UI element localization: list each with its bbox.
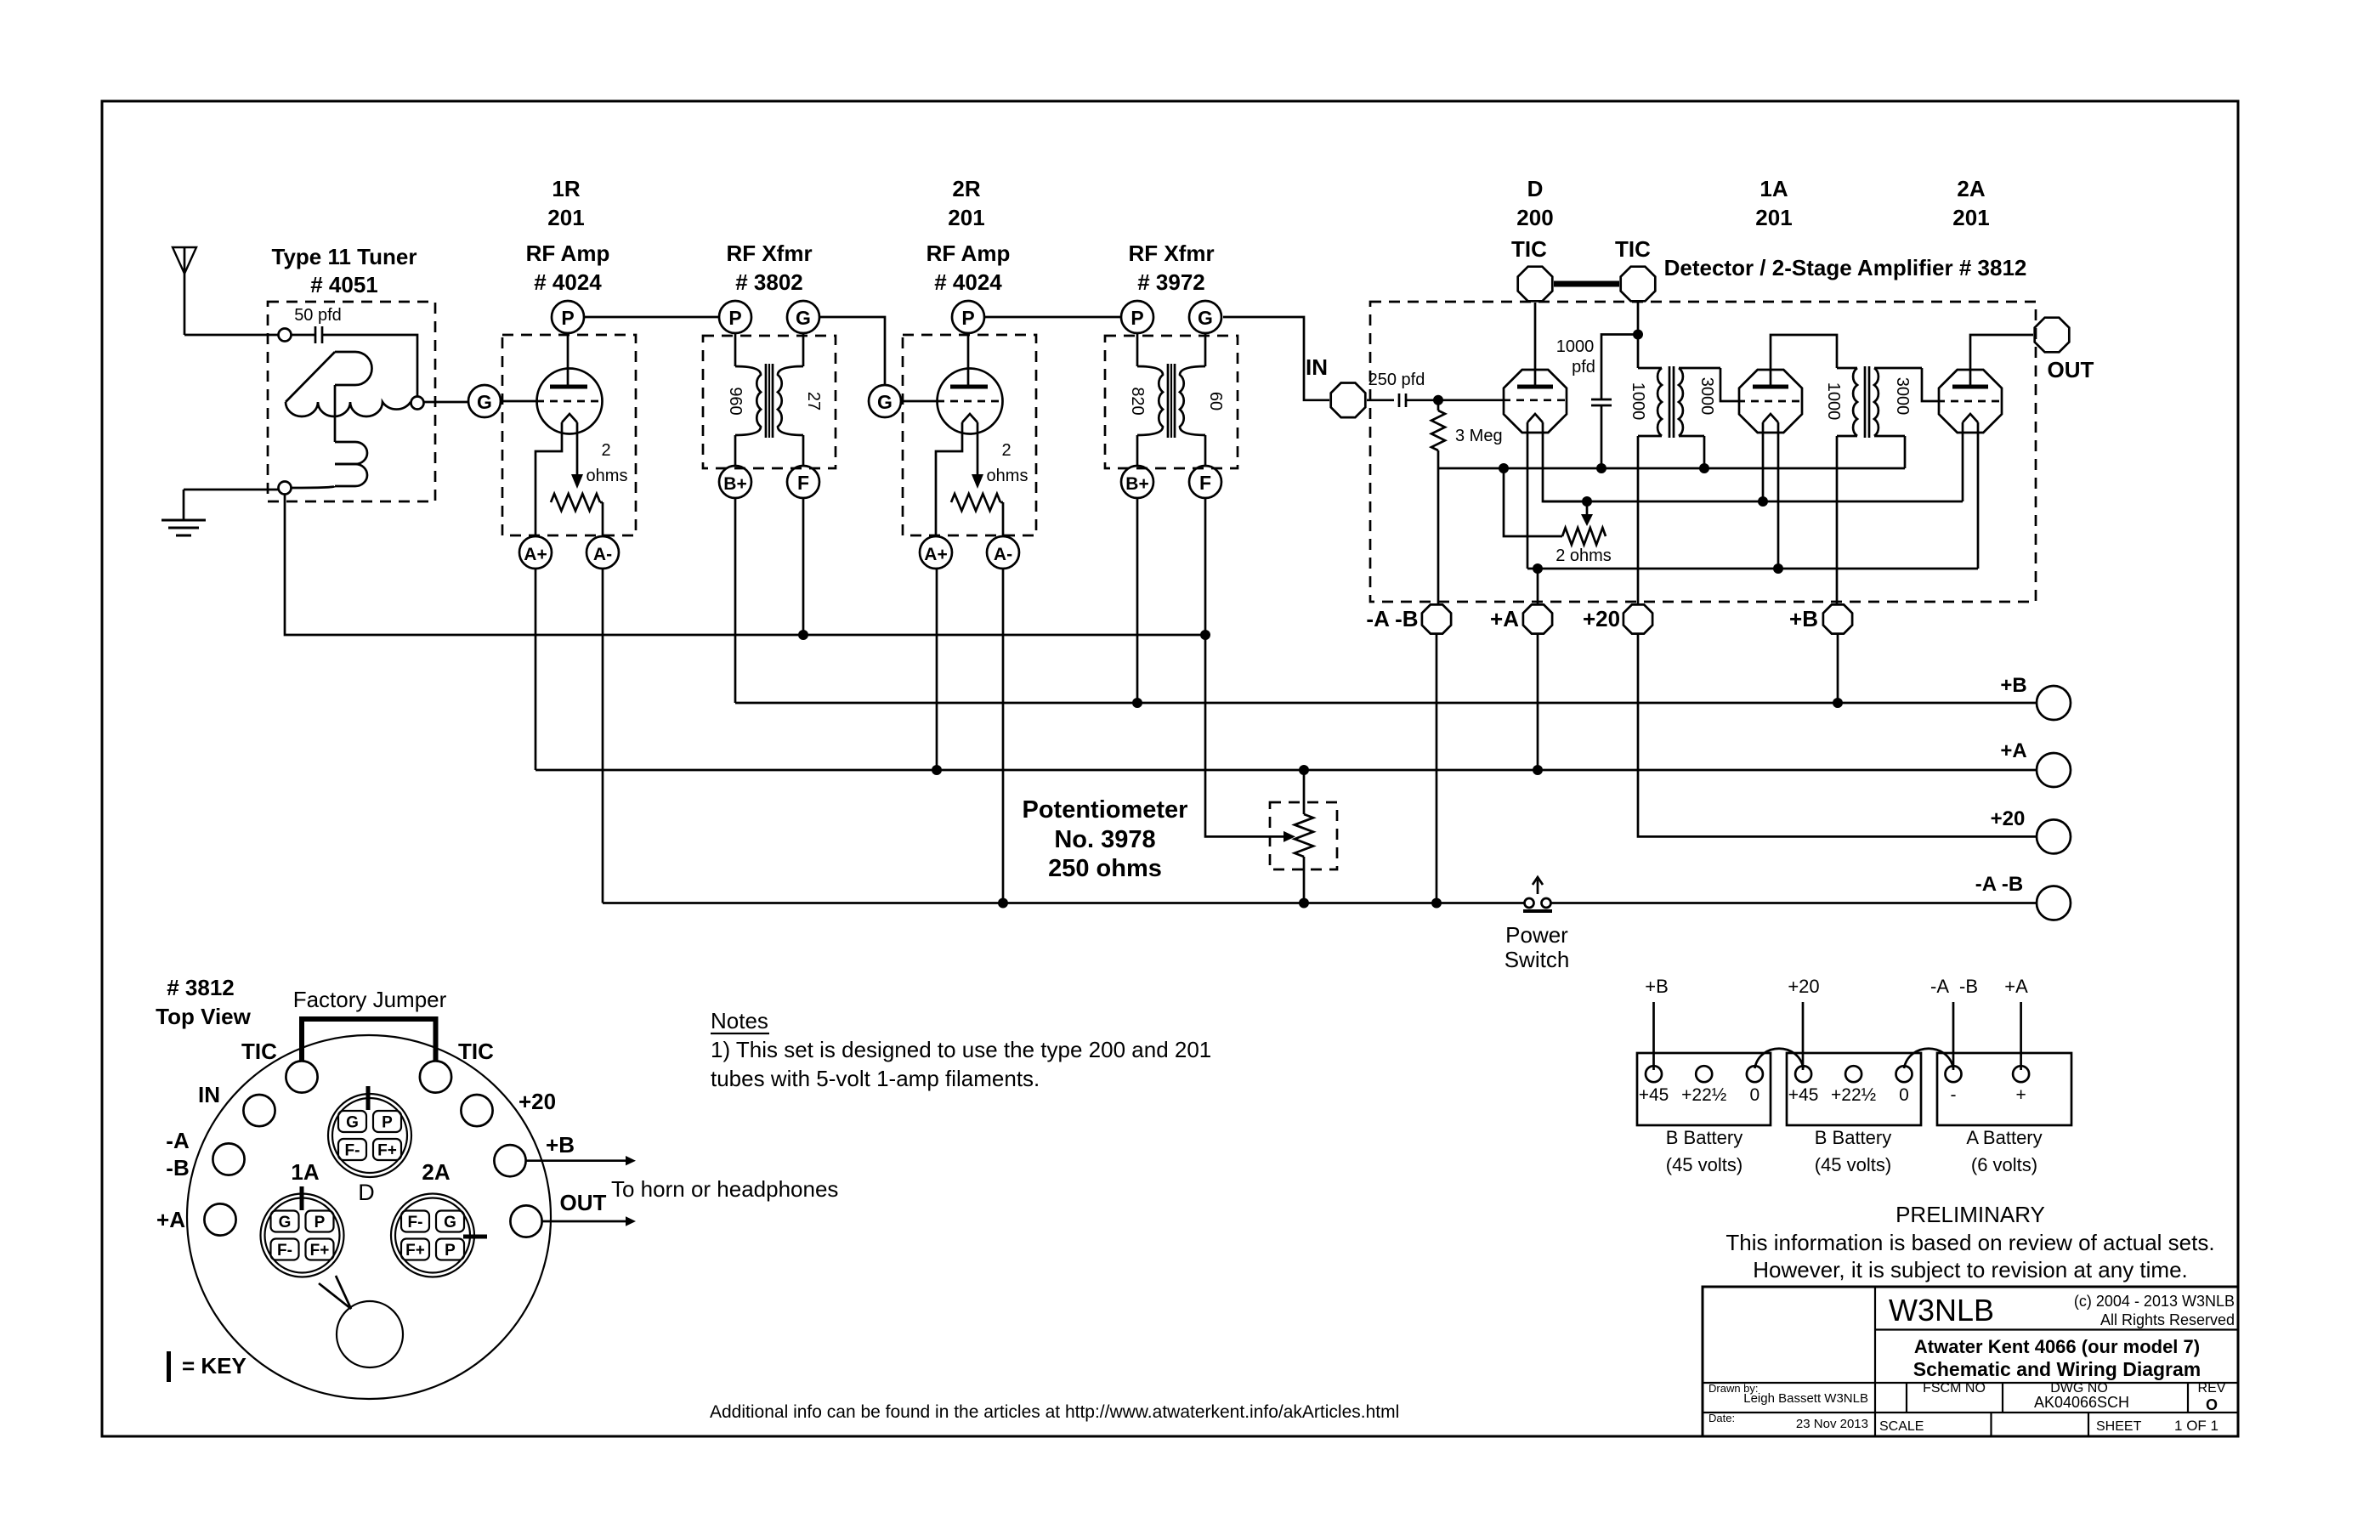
title block W3NLB <box>1889 1293 1994 1328</box>
svg-text:+B: +B <box>546 1132 575 1158</box>
secondary winding 3972 <box>1180 333 1205 466</box>
label +20 bottom <box>1583 606 1620 631</box>
label 2 ohms of 2R <box>987 441 1028 485</box>
wire 3802 G to 2R grid <box>819 317 885 385</box>
potentiometer label <box>1023 796 1188 882</box>
B battery 2 label <box>1815 1127 1891 1175</box>
svg-text:+20: +20 <box>1583 606 1620 631</box>
terminal F of 3972 <box>1189 466 1221 498</box>
svg-text:G: G <box>346 1114 359 1132</box>
core of 3802 <box>766 364 773 438</box>
svg-text:W3NLB: W3NLB <box>1889 1293 1994 1328</box>
svg-text:F: F <box>1199 472 1211 494</box>
wire T1 sec bottom to bus <box>1703 436 1706 468</box>
label -A -B bottom <box>1366 606 1418 631</box>
wire cap to grid node <box>1406 399 1438 401</box>
socket pad IN <box>198 1082 275 1126</box>
svg-text:RF Amp: RF Amp <box>926 241 1011 266</box>
arrow OUT to horn <box>542 1216 636 1226</box>
label TIC left <box>1511 236 1547 262</box>
svg-text:G: G <box>1198 307 1213 329</box>
battery lead +20 <box>1788 976 1819 1070</box>
grid line of 2A <box>1937 400 2003 403</box>
node cap1000 bottom <box>1596 463 1606 473</box>
socket 1A <box>261 1194 344 1277</box>
svg-text:Date:: Date: <box>1708 1412 1735 1424</box>
cathode of 1A <box>1763 414 1778 569</box>
svg-text:D: D <box>358 1180 375 1205</box>
rail -A-B right <box>1550 902 2037 904</box>
svg-text:P: P <box>728 307 741 329</box>
socket alignment hole <box>337 1301 403 1367</box>
terminal +A rail <box>2037 753 2071 787</box>
battery post +45 <box>1788 1066 1819 1105</box>
svg-text:Notes: Notes <box>711 1008 768 1033</box>
terminal OUT <box>2035 318 2070 353</box>
svg-text:G: G <box>477 391 492 413</box>
svg-text:TIC: TIC <box>241 1039 277 1064</box>
svg-text:Factory Jumper: Factory Jumper <box>293 987 447 1012</box>
label +A rail <box>2000 739 2026 762</box>
factory jumper label <box>293 987 447 1012</box>
wire cap to coil tap <box>322 335 417 397</box>
svg-text:F-: F- <box>408 1214 423 1231</box>
svg-text:+: + <box>2015 1085 2026 1105</box>
socket pad OUT <box>510 1190 606 1237</box>
svg-text:+22½: +22½ <box>1681 1085 1726 1105</box>
terminal TIC right <box>1621 267 1656 302</box>
svg-text:27: 27 <box>804 392 823 410</box>
socket D <box>328 1094 411 1177</box>
tuner variometer coil L1 <box>286 352 411 488</box>
terminal A+ of 1R <box>519 536 552 569</box>
svg-text:+20: +20 <box>1788 976 1819 997</box>
svg-text:-A: -A <box>166 1128 190 1153</box>
node 1A F- row <box>1758 496 1768 507</box>
wire +20 riser <box>1637 436 1640 603</box>
terminal -A-B rail <box>2037 886 2071 920</box>
svg-text:201: 201 <box>1755 205 1792 230</box>
node A+2R rail <box>932 765 942 775</box>
svg-text:PRELIMINARY: PRELIMINARY <box>1895 1202 2045 1227</box>
svg-text:F+: F+ <box>377 1142 397 1160</box>
wire B+3972 to +B rail <box>1136 498 1139 703</box>
label +B rail <box>2000 674 2026 697</box>
node rheostat-bus <box>1499 463 1509 473</box>
potentiometer box <box>1270 802 1337 869</box>
svg-text:TIC: TIC <box>1615 236 1651 262</box>
grid line of D <box>1438 399 1567 401</box>
socket pad +20 <box>461 1089 556 1126</box>
svg-text:F+: F+ <box>310 1242 330 1260</box>
svg-text:To horn or headphones: To horn or headphones <box>611 1176 838 1202</box>
svg-text:However, it is subject to revi: However, it is subject to revision at an… <box>1753 1257 2188 1282</box>
svg-text:201: 201 <box>1952 205 1989 230</box>
capacitor 50 pfd <box>294 306 342 343</box>
node +A on F+ row <box>1533 563 1543 574</box>
svg-text:F: F <box>797 472 809 494</box>
svg-text:+A: +A <box>2000 739 2026 762</box>
svg-text:OUT: OUT <box>560 1190 607 1215</box>
terminal G of 3972 <box>1189 301 1221 333</box>
battery lead +A <box>2004 976 2028 1070</box>
svg-text:Additional info can be found i: Additional info can be found in the arti… <box>710 1402 1399 1422</box>
svg-text:F-: F- <box>345 1142 360 1160</box>
svg-text:RF Amp: RF Amp <box>526 241 610 266</box>
node B+3972 rail <box>1132 698 1142 708</box>
terminal P of 2R <box>952 301 984 333</box>
node -A-B det rail <box>1431 898 1442 909</box>
label 1000 of T2 <box>1824 382 1843 421</box>
wire -A-B det to rail <box>1436 635 1438 903</box>
detector box #3812 <box>1370 302 2036 602</box>
label TIC right <box>1615 236 1651 262</box>
notes text <box>711 1008 1211 1091</box>
svg-text:-A -B: -A -B <box>1366 606 1418 631</box>
node +A det rail <box>1533 765 1543 775</box>
terminal G of 2R <box>869 385 901 417</box>
svg-text:+22½: +22½ <box>1831 1085 1876 1105</box>
triode tube 1A <box>1739 370 1802 433</box>
svg-text:-B: -B <box>166 1155 189 1180</box>
wire 2R plate to xfmr 3972 <box>984 316 1121 319</box>
xfmr 3802 title <box>726 241 812 295</box>
terminal P of 1R <box>552 301 584 333</box>
svg-text:IN: IN <box>198 1082 220 1107</box>
svg-text:-A -B: -A -B <box>1975 873 2023 896</box>
svg-text:ohms: ohms <box>586 467 628 485</box>
wire TIC2 to T1 primary <box>1637 303 1640 368</box>
socket 2A key <box>463 1235 487 1239</box>
socket 2A label <box>422 1159 450 1185</box>
svg-text:Power: Power <box>1505 922 1568 948</box>
terminal A- of 2R <box>987 536 1019 569</box>
svg-text:201: 201 <box>547 205 584 230</box>
wire A-2R to -A-B rail <box>1002 569 1005 903</box>
A battery box <box>1937 1053 2071 1125</box>
plate bar of 1R <box>550 385 587 389</box>
node pot top <box>1299 765 1309 775</box>
svg-text:SHEET: SHEET <box>2096 1419 2142 1434</box>
socket pad TIC left <box>241 1039 318 1093</box>
plate bar of 2A <box>1952 385 1988 389</box>
triode tube 2A <box>1939 370 2002 433</box>
svg-text:820: 820 <box>1128 387 1147 415</box>
svg-text:TIC: TIC <box>1511 236 1547 262</box>
svg-text:Top View: Top View <box>156 1004 251 1029</box>
wire T1 sec top to 1A grid <box>1720 368 1737 401</box>
filament arrow of 1R <box>571 422 583 489</box>
svg-text:+45: +45 <box>1639 1085 1669 1105</box>
tuner terminal top <box>279 329 292 342</box>
title block FSCM <box>1923 1381 1986 1396</box>
xfmr T2 primary <box>1837 368 1857 436</box>
rheostat 2 ohms of 2R <box>951 494 1003 536</box>
label 820 of 3972 <box>1128 387 1147 415</box>
svg-text:1A: 1A <box>291 1159 319 1185</box>
terminal B+ of 3972 <box>1121 466 1153 498</box>
wire F3802 down <box>802 498 805 635</box>
label +20 rail <box>1991 807 2026 830</box>
svg-text:201: 201 <box>948 205 984 230</box>
svg-text:pfd: pfd <box>1572 358 1595 377</box>
terminal -A -B bottom <box>1422 604 1451 633</box>
node F 3972 on line <box>1200 630 1210 640</box>
svg-text:P: P <box>382 1114 393 1132</box>
rail +A <box>535 769 2037 772</box>
title block drawn by <box>1708 1382 1868 1406</box>
svg-text:RF Xfmr: RF Xfmr <box>726 241 812 266</box>
cathode of 2A <box>1963 414 1978 569</box>
svg-text:1A: 1A <box>1759 176 1788 201</box>
title block copyright <box>2074 1293 2235 1328</box>
wire tuner ground line <box>285 495 1205 636</box>
node rheostat wiper D <box>1582 496 1592 507</box>
terminal G of 1R <box>468 385 501 417</box>
terminal B+ of 3802 <box>719 466 751 498</box>
title block scale <box>1879 1419 1924 1434</box>
node grid D <box>1433 395 1443 405</box>
plate bar of 2R <box>950 385 988 389</box>
svg-text:3 Meg: 3 Meg <box>1455 427 1503 445</box>
socket pad TIC right <box>420 1039 494 1093</box>
svg-text:B Battery: B Battery <box>1815 1127 1891 1148</box>
terminal +A bottom <box>1523 604 1552 633</box>
wire tuner terminal to cap <box>292 334 316 337</box>
tube D designator <box>1516 176 1553 230</box>
node +B det rail <box>1833 698 1843 708</box>
primary winding 3802 <box>735 333 761 466</box>
label +B bottom <box>1789 606 1818 631</box>
wire A+2R to +A rail <box>936 569 938 770</box>
svg-text:Atwater Kent 4066 (our model: Atwater Kent 4066 (our model 7) <box>1914 1336 2200 1357</box>
svg-text:250 ohms: 250 ohms <box>1048 855 1162 882</box>
filament row F+ <box>1527 568 1978 570</box>
svg-text:# 4024: # 4024 <box>534 269 602 295</box>
node A-2R rail <box>998 898 1008 909</box>
svg-text:REV: REV <box>2198 1381 2226 1396</box>
label 2 ohms of 1R <box>586 441 628 485</box>
battery lead -A-B <box>1930 976 1978 1070</box>
svg-text:1) This set is designed to use: 1) This set is designed to use the type … <box>711 1037 1211 1062</box>
key legend <box>169 1351 246 1382</box>
wiper arrow of D rheostat <box>1581 507 1593 527</box>
label IN <box>1306 354 1328 380</box>
svg-text:-B: -B <box>1959 976 1978 997</box>
RF amp box 1R <box>502 335 636 535</box>
plate bar of 1A <box>1753 385 1788 389</box>
xfmr T2 core <box>1865 366 1869 438</box>
svg-text:G: G <box>877 391 892 413</box>
svg-text:1 OF 1: 1 OF 1 <box>2174 1418 2218 1434</box>
socket 1A key <box>300 1186 304 1210</box>
wire +A terminal riser <box>1537 569 1539 603</box>
tuner terminal tap <box>411 397 424 410</box>
node F 3802 on line <box>798 630 808 640</box>
triode tube 1R <box>537 369 603 434</box>
svg-text:-: - <box>1951 1085 1957 1105</box>
B battery 1 box <box>1637 1053 1771 1125</box>
wire 1R plate to xfmr 3802 <box>584 316 719 319</box>
grid line of 1R <box>501 400 603 403</box>
label 3000 of T1 <box>1697 377 1716 416</box>
label 2 ohms of D <box>1555 546 1612 565</box>
svg-text:IN: IN <box>1306 354 1328 380</box>
terminal G of 3802 <box>787 301 819 333</box>
svg-text:# 3812: # 3812 <box>167 975 235 1000</box>
RF amp box 2R <box>903 335 1036 535</box>
battery post +22½ <box>1831 1066 1876 1105</box>
terminal +20 rail <box>2037 819 2071 853</box>
svg-text:+20: +20 <box>1991 807 2026 830</box>
svg-text:+A: +A <box>156 1207 185 1232</box>
svg-text:Leigh Bassett W3NLB: Leigh Bassett W3NLB <box>1743 1391 1868 1406</box>
label -A-B rail <box>1975 873 2023 896</box>
battery lead +B <box>1645 976 1669 1070</box>
node pot bottom <box>1299 898 1309 909</box>
wire T2 sec top to 2A grid <box>1922 368 1937 401</box>
svg-text:tubes with 5-volt 1-amp filame: tubes with 5-volt 1-amp filaments. <box>711 1066 1040 1091</box>
svg-text:A+: A+ <box>924 545 947 564</box>
svg-text:A-: A- <box>994 545 1012 564</box>
svg-text:Switch: Switch <box>1504 947 1570 972</box>
svg-text:A Battery: A Battery <box>1966 1127 2042 1148</box>
svg-text:RF Xfmr: RF Xfmr <box>1128 241 1214 266</box>
preliminary text <box>1725 1202 2214 1282</box>
svg-text:All Rights Reserved: All Rights Reserved <box>2100 1311 2235 1328</box>
svg-text:+45: +45 <box>1788 1085 1819 1105</box>
wire B+3802 to +B rail <box>734 498 737 703</box>
svg-text:(c) 2004 - 2013 W3NLB: (c) 2004 - 2013 W3NLB <box>2074 1293 2235 1310</box>
terminal TIC left <box>1518 267 1553 302</box>
factory jumper bar <box>1554 281 1619 287</box>
wire tuner bottom to ground <box>184 489 279 491</box>
xfmr T2 secondary <box>1874 368 1922 436</box>
B battery 1 label <box>1666 1127 1742 1175</box>
xfmr T1 primary <box>1638 368 1662 436</box>
title block REV <box>2198 1381 2226 1413</box>
socket pad -A -B <box>166 1128 244 1180</box>
wire F3972 to pot wiper <box>1205 498 1295 842</box>
title block DWG <box>2034 1381 2129 1411</box>
svg-text:2 ohms: 2 ohms <box>1555 546 1612 565</box>
socket pad +A <box>156 1203 236 1235</box>
wire A-1R to -A-B rail <box>602 569 604 903</box>
ground <box>161 490 206 535</box>
power switch label <box>1504 922 1570 972</box>
svg-text:D: D <box>1527 176 1544 201</box>
svg-text:P: P <box>961 307 974 329</box>
wire antenna to tuner <box>184 334 279 337</box>
wire T2 sec bottom to bus <box>1904 436 1907 468</box>
svg-text:200: 200 <box>1516 205 1553 230</box>
rheostat 2 ohms of 1R <box>551 494 603 536</box>
svg-text:G: G <box>444 1214 456 1231</box>
wire 1A plate to T2 <box>1771 335 1837 387</box>
wire TIC1 to D plate <box>1534 303 1537 387</box>
svg-text:ohms: ohms <box>987 467 1028 485</box>
rail +B <box>735 702 2037 705</box>
core of 3972 <box>1168 364 1175 438</box>
socket pointer <box>319 1276 351 1309</box>
tube 1R designator <box>547 176 584 230</box>
A battery label <box>1966 1127 2042 1175</box>
node T1 sec bus <box>1699 463 1709 473</box>
grid line of 1A <box>1737 400 1804 403</box>
tuner title <box>272 244 417 297</box>
power switch <box>1523 877 1552 911</box>
wire -A-B terminal riser <box>1437 468 1440 603</box>
triode tube 2R <box>938 369 1003 434</box>
svg-text:60: 60 <box>1206 392 1225 410</box>
wire +B riser <box>1836 436 1839 603</box>
socket D label <box>358 1180 375 1205</box>
svg-text:1R: 1R <box>552 176 580 201</box>
socket 1A label <box>291 1159 319 1185</box>
triode tube D <box>1504 370 1567 433</box>
svg-text:B Battery: B Battery <box>1666 1127 1742 1148</box>
svg-text:B+: B+ <box>723 474 746 494</box>
title block title <box>1913 1336 2201 1380</box>
cathode of 2R <box>936 414 977 536</box>
svg-text:= KEY: = KEY <box>182 1353 246 1379</box>
label OUT <box>2048 357 2094 382</box>
svg-text:50 pfd: 50 pfd <box>294 306 342 325</box>
svg-text:+20: +20 <box>518 1089 556 1114</box>
battery jumper arc 1 <box>1754 1049 1803 1068</box>
svg-text:AK04066SCH: AK04066SCH <box>2034 1394 2129 1411</box>
secondary winding 3802 <box>778 333 803 466</box>
wire P to plate of 1R <box>567 333 569 387</box>
B battery 2 box <box>1787 1053 1921 1125</box>
terminal IN <box>1331 383 1366 418</box>
title block sheet <box>2096 1418 2218 1434</box>
svg-text:3000: 3000 <box>1893 377 1912 416</box>
wire rheostat to bus <box>1504 468 1562 536</box>
tube 2A designator <box>1952 176 1989 230</box>
title block frame <box>1703 1287 2238 1436</box>
terminal P of 3802 <box>719 301 751 333</box>
svg-text:960: 960 <box>726 387 745 415</box>
svg-text:FSCM NO: FSCM NO <box>1923 1381 1986 1396</box>
svg-text:2R: 2R <box>952 176 980 201</box>
label 60 of 3972 <box>1206 392 1225 410</box>
svg-text:# 4051: # 4051 <box>310 272 378 297</box>
socket D key <box>366 1086 371 1110</box>
xfmr box 3972 <box>1105 336 1238 468</box>
antenna <box>173 247 196 335</box>
tube 1R title <box>526 241 610 295</box>
battery post + <box>2013 1066 2029 1105</box>
wire 2A plate to OUT <box>1970 335 2033 387</box>
svg-text:# 3972: # 3972 <box>1137 269 1205 295</box>
wire coil tap to G <box>424 401 469 404</box>
svg-text:2: 2 <box>1001 441 1011 460</box>
svg-text:F-: F- <box>277 1242 292 1260</box>
svg-text:250 pfd: 250 pfd <box>1368 371 1425 389</box>
plate bar of D <box>1517 385 1553 389</box>
svg-text:+B: +B <box>1645 976 1669 997</box>
svg-text:23 Nov 2013: 23 Nov 2013 <box>1796 1417 1868 1431</box>
battery post 0 <box>1747 1066 1763 1105</box>
label 27 of 3802 <box>804 392 823 410</box>
potentiometer 3978 <box>1295 770 1313 903</box>
terminal +B bottom <box>1823 604 1852 633</box>
socket pad +B <box>494 1132 575 1176</box>
label 1000 of T1 <box>1629 382 1647 421</box>
battery post +45 <box>1639 1066 1669 1105</box>
to horn label <box>611 1176 838 1202</box>
